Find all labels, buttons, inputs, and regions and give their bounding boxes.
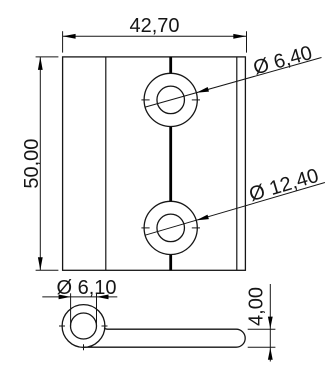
svg-text:Ø 6,10: Ø 6,10 (57, 277, 117, 299)
dimension 50,00 extension line top (36, 56, 59, 58)
thick hole axis line segment 2 (169, 127, 172, 202)
bottom hole centerline tick right (192, 227, 200, 229)
svg-text:Ø 12,40: Ø 12,40 (247, 165, 321, 206)
dimension 6,10 arrow left (59, 295, 71, 300)
bottom hole centerline tick left (141, 227, 149, 229)
dimension 4,00 arrow bottom (268, 348, 273, 360)
leader line diameter 12,40 (145, 183, 325, 236)
side view knuckle outer circle (62, 305, 105, 348)
leader line diameter 6,40 (145, 58, 321, 108)
dimension 6,10 extension line right (96, 293, 98, 326)
dimension 4,00 extension line top (248, 328, 276, 330)
svg-text:4,00: 4,00 (245, 287, 267, 326)
leader arrow diameter 12,40 (196, 215, 209, 221)
dimension 42,70 arrow left (63, 34, 76, 39)
dimension 4,00 line (269, 284, 271, 362)
top hole counterbore circle (144, 73, 197, 126)
dimension 42,70 line (63, 35, 247, 37)
thick hole axis line segment 1 (169, 57, 172, 73)
dimension 50,00 arrow top (38, 57, 43, 70)
side view pin bore circle (71, 313, 97, 339)
dimension 4,00 extension line bottom (248, 346, 276, 348)
knuckle centerline tick left (59, 325, 65, 327)
knuckle centerline tick bottom (83, 344, 85, 350)
svg-text:Ø 6,40: Ø 6,40 (251, 42, 315, 79)
svg-text:50,00: 50,00 (21, 139, 43, 189)
dimension 42,70 extension line left (62, 31, 64, 52)
dimension 4,00 arrow top (268, 317, 273, 329)
bottom hole bore circle (157, 214, 185, 242)
dimension 42,70 arrow right (233, 34, 246, 39)
dimension 6,10 arrow right (97, 295, 109, 300)
dimension 6,10 line (42, 296, 117, 298)
dimension 50,00 arrow bottom (38, 257, 43, 270)
top hole bore circle (157, 86, 185, 114)
top hole centerline tick left (141, 99, 149, 101)
end-radius tangent line (right) (236, 57, 238, 270)
svg-text:42,70: 42,70 (129, 15, 179, 37)
dimension 50,00 extension line bottom (36, 269, 59, 271)
top hole centerline tick right (192, 99, 200, 101)
top view plate outline (63, 57, 246, 270)
leader arrow diameter 6,40 (196, 87, 209, 93)
side view leaf bar outline (84, 328, 246, 347)
dimension 6,10 extension line left (70, 293, 72, 326)
thick hole axis line segment 3 (169, 255, 172, 271)
dimension 42,70 extension line right (246, 31, 248, 52)
bottom hole counterbore circle (144, 201, 197, 254)
knuckle centerline tick right (102, 325, 108, 327)
dimension 50,00 line (39, 57, 41, 270)
knuckle tangent line (left) (105, 57, 107, 270)
